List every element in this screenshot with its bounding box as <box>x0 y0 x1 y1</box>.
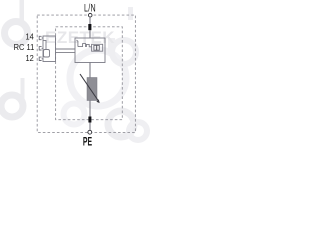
wire 12 to RC <box>42 58 43 60</box>
wire L/N terminal to disconnector F1 <box>89 17 91 24</box>
wire 14 to RC <box>42 37 43 39</box>
terminal X2 PE (circle on boundary) <box>88 130 92 134</box>
wire F1 to spark-gap box U1 <box>89 30 91 38</box>
watermark logo ring bottom-right <box>108 40 147 140</box>
wire U1 to varistor RV1 <box>89 63 91 78</box>
watermark logo ring bottom-center <box>64 104 85 125</box>
enclosure outer dashed device boundary <box>37 15 135 132</box>
electrode vertical inside U1 <box>77 41 79 47</box>
varistor RV1 diagonal arrow <box>80 74 99 102</box>
terminal bracket 14 <box>39 36 41 39</box>
wire 11 to RC <box>42 47 43 49</box>
wire RV1 to disconnector F2 <box>89 101 91 117</box>
svg-text:PE: PE <box>83 136 92 149</box>
disconnector F1 (thermal disconnect, filled) <box>88 24 91 30</box>
spark-gap module U1 box <box>75 38 105 63</box>
watermark logo ring top-left <box>5 0 28 45</box>
svg-text:12: 12 <box>25 54 34 64</box>
terminal X1 L/N (circle on boundary) <box>88 13 92 17</box>
inner electrode rectangle inside U1 <box>94 45 99 50</box>
terminal bracket 11 <box>39 47 41 50</box>
svg-text:L/N: L/N <box>84 2 96 14</box>
wire F2 to PE terminal <box>89 123 91 131</box>
disconnector F2 (filled, on inner boundary) <box>88 117 91 123</box>
contact lever inside RC <box>43 40 46 49</box>
wire mechanical linkage lower RC to U1 <box>56 52 76 54</box>
quench-chamber step line inside U1 <box>78 44 92 47</box>
svg-text:RC 11: RC 11 <box>14 42 35 52</box>
inner electrode tick inside U1 <box>96 45 98 50</box>
watermark logo ring bottom-left <box>1 78 25 117</box>
varistor RV1 body <box>87 78 97 101</box>
contact chamber inside RC <box>44 50 50 58</box>
watermark logo ring right <box>70 7 133 106</box>
wire mechanical linkage upper RC to U1 <box>56 48 76 50</box>
enclosure inner dashed protection-module boundary <box>56 27 123 120</box>
arc-chamber rectangle inside U1 <box>92 44 103 51</box>
electrode tick inside U1 <box>77 40 78 41</box>
relay RC remote-signalling contact block <box>43 36 56 62</box>
terminal bracket 12 <box>39 57 41 60</box>
svg-text:14: 14 <box>25 32 34 42</box>
